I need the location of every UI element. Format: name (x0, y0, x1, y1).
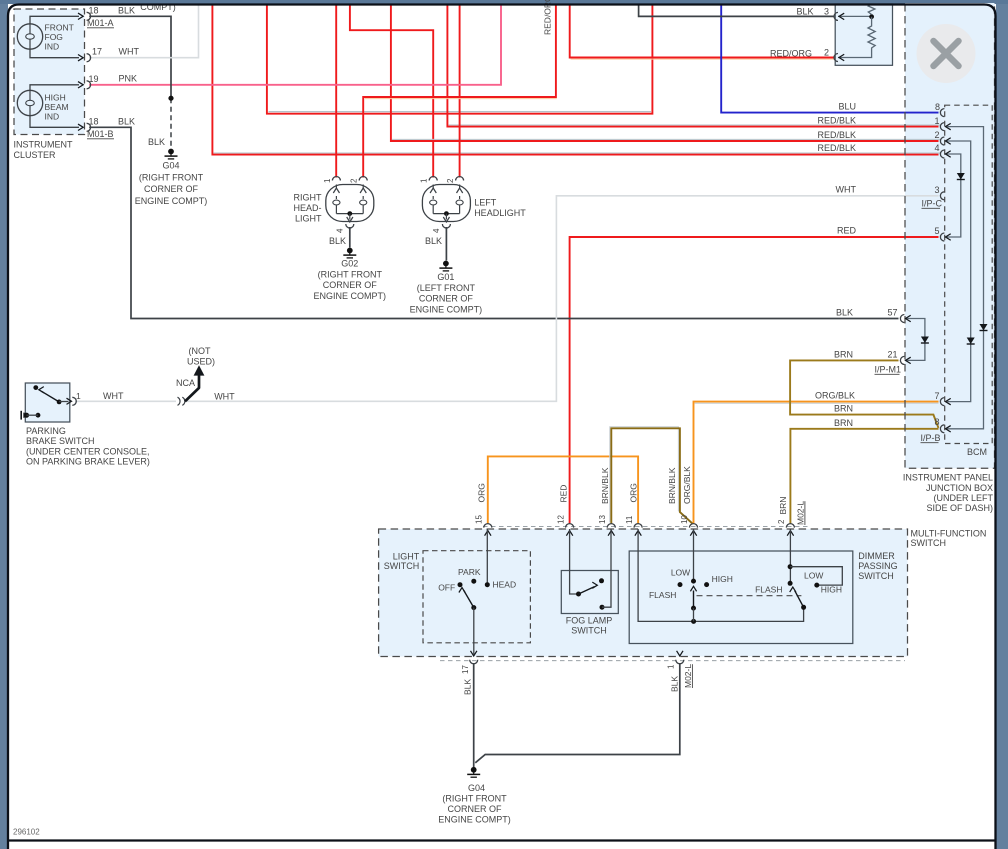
diode D2 (980, 324, 988, 331)
svg-text:HIGH: HIGH (712, 574, 733, 584)
svg-text:CORNER OF: CORNER OF (419, 294, 474, 304)
right headlight pin 2 arc (359, 177, 367, 181)
BCM internal wire pin2 to pin7 (947, 141, 971, 402)
svg-text:BRN/BLK: BRN/BLK (667, 467, 677, 504)
light switch dashed box (423, 551, 530, 643)
wire gray companion pin4 line (214, 152, 941, 154)
svg-text:7: 7 (935, 391, 940, 401)
wire red U-loop wire (267, 4, 653, 114)
connector pin 2 (940, 137, 944, 145)
svg-text:LIGHT: LIGHT (295, 214, 322, 224)
wire RED/BLK to BCM pin 1 (447, 4, 938, 127)
diode D1 (957, 173, 965, 180)
svg-text:CORNER OF: CORNER OF (448, 804, 503, 814)
connector pin 1 (940, 123, 944, 131)
svg-text:ORG: ORG (477, 483, 487, 502)
svg-text:(NOT: (NOT (189, 346, 211, 356)
ground G02 (347, 248, 353, 254)
svg-text:8: 8 (935, 102, 940, 112)
OFF contact (458, 582, 463, 587)
svg-text:HIGH: HIGH (45, 93, 66, 103)
fog lamp switch box (561, 571, 618, 614)
wire orange stripe companion (571, 58, 834, 60)
svg-text:CLUSTER: CLUSTER (14, 150, 57, 160)
svg-text:1: 1 (323, 178, 332, 183)
svg-text:ORG/BLK: ORG/BLK (815, 390, 855, 400)
svg-text:PNK: PNK (118, 74, 137, 84)
svg-text:INSTRUMENT: INSTRUMENT (14, 140, 73, 150)
junction dot on BLK ground wire (168, 96, 173, 101)
connector pin 5 (940, 233, 944, 241)
dimmer passing switch box (629, 551, 853, 644)
multi-function switch pin 15 (484, 524, 492, 528)
cluster pin 17 (78, 54, 83, 60)
svg-text:1: 1 (76, 391, 81, 401)
svg-text:BLK: BLK (148, 137, 165, 147)
bulb HIGH BEAM IND (17, 90, 42, 115)
multi-function switch pin 13 (607, 524, 615, 528)
svg-text:ORG/BLK: ORG/BLK (682, 466, 692, 504)
svg-text:3: 3 (824, 7, 829, 17)
PARK contact (471, 579, 476, 584)
cluster pin 18 M01-A (78, 13, 83, 19)
left headlight pin 2 arc (456, 177, 464, 181)
parking brake pin 1 (72, 397, 76, 405)
svg-text:(RIGHT FRONT: (RIGHT FRONT (318, 270, 383, 280)
svg-text:ENGINE COMPT): ENGINE COMPT) (314, 291, 387, 301)
wire red to left headlight pin 2 (459, 4, 461, 178)
svg-text:17: 17 (92, 47, 102, 57)
svg-text:DIMMER: DIMMER (858, 551, 895, 561)
svg-text:SWITCH: SWITCH (384, 561, 420, 571)
light switch internal wire pin15 to HEAD (486, 529, 488, 585)
svg-text:21: 21 (888, 350, 898, 360)
svg-text:10: 10 (680, 515, 689, 524)
svg-text:M01-B: M01-B (87, 129, 114, 139)
svg-text:WHT: WHT (214, 391, 235, 401)
svg-text:BEAM: BEAM (45, 102, 69, 112)
passing wire pin 2 (789, 529, 791, 583)
wire BLK right headlight ground (349, 227, 351, 248)
svg-text:IND: IND (45, 42, 60, 52)
svg-text:RIGHT: RIGHT (294, 193, 323, 203)
wire RED/BLK to BCM pin 2 (391, 4, 939, 141)
fog switch lower contact (600, 605, 605, 610)
wire RED/ORG to right headlight pin 2 (363, 4, 556, 178)
light switch common wire down to pin 17 (473, 608, 475, 655)
svg-text:LEFT: LEFT (474, 198, 497, 208)
parking brake lever (42, 391, 60, 402)
fog switch wire from pin 12 (570, 529, 579, 594)
wire red to right headlight pin 1 (335, 4, 337, 178)
svg-text:FOG: FOG (45, 32, 63, 42)
close button (917, 24, 976, 83)
svg-text:FLASH: FLASH (649, 590, 676, 600)
svg-text:ENGINE COMPT): ENGINE COMPT) (410, 304, 483, 314)
svg-text:BRN: BRN (778, 497, 788, 515)
wire ORG pin 15 to pin 11 jumper (488, 456, 638, 523)
BCM dashed box (945, 105, 993, 443)
svg-text:RED/BLK: RED/BLK (817, 116, 856, 126)
dimmer LOW contact (678, 582, 683, 587)
svg-text:3: 3 (935, 185, 940, 195)
viewer chrome left band (0, 0, 8, 849)
cluster pin 18 M01-B (78, 124, 83, 130)
svg-text:(RIGHT FRONT: (RIGHT FRONT (139, 172, 204, 182)
connector M02 boundary dashed line (440, 660, 905, 662)
svg-text:I/P-C: I/P-C (922, 199, 943, 209)
parking brake switch box (25, 383, 70, 422)
resistor module box (835, 4, 892, 65)
wire WHT NCA to BCM pin 3 (187, 196, 939, 401)
ground G04 bottom (471, 767, 477, 773)
frame bottom rule (8, 839, 996, 841)
svg-text:HEAD: HEAD (493, 580, 517, 590)
svg-text:1: 1 (420, 178, 429, 183)
svg-text:BLU: BLU (838, 101, 856, 111)
svg-text:ENGINE COMPT): ENGINE COMPT) (438, 814, 511, 824)
wire BLK cluster M01-B to junction box pin 57 (89, 127, 898, 318)
bulb lead wires high beam (30, 85, 79, 91)
wire PNK high beam indicator wire (89, 4, 501, 85)
svg-text:BLK: BLK (425, 236, 442, 246)
connector pin 57 (900, 315, 904, 323)
svg-text:12: 12 (556, 515, 565, 524)
wire RED/ORG to resistor pin 2 (570, 4, 834, 58)
svg-text:WHT: WHT (119, 47, 140, 57)
connector pin 21 I/P-M1 (900, 356, 904, 364)
connector pin 3 I/P-C (940, 192, 944, 200)
svg-text:FLASH: FLASH (755, 585, 782, 595)
dimmer HIGH contact (704, 582, 709, 587)
right headlight filament at 336.4 (335, 185, 337, 189)
left headlight common bus (433, 213, 459, 215)
cluster pin 19 (78, 82, 83, 88)
NCA not-connected connector (178, 397, 181, 405)
svg-text:4: 4 (432, 228, 441, 233)
resistor internal wire pin 3 (838, 15, 872, 17)
bulb lead wires front fog (30, 16, 79, 24)
svg-text:BLK: BLK (669, 676, 679, 692)
wire red to left headlight pin 1 (350, 4, 433, 178)
passing contact B (788, 581, 793, 586)
diode D4 (921, 337, 929, 344)
parking brake switch fill (25, 383, 70, 422)
dimmer wire pin 11 to bus (638, 529, 804, 621)
svg-text:MULTI-FUNCTION: MULTI-FUNCTION (911, 528, 987, 538)
junction box internal wire pin57 to pin21 (906, 319, 925, 361)
dimmer synchro dashed link (697, 595, 802, 597)
wire WHT parking brake to NCA (75, 400, 176, 402)
wire gray companion pin1 line (449, 124, 941, 126)
wire RED multi-function pin 12 to BCM pin 5 (570, 237, 939, 524)
dimmer wire pin 10 (693, 529, 695, 581)
wire WHT cluster pin 17 (89, 4, 198, 58)
passing HIGH contact (814, 583, 819, 588)
svg-text:1: 1 (935, 116, 940, 126)
svg-text:BRN: BRN (834, 349, 853, 359)
multi-function switch dashed box (379, 529, 908, 657)
left headlight body (422, 185, 470, 222)
dimmer bus junction dot (691, 619, 696, 624)
svg-text:FOG LAMP: FOG LAMP (566, 616, 613, 626)
svg-text:PASSING: PASSING (858, 561, 897, 571)
connector pin 4 (940, 150, 944, 158)
svg-text:PARKING: PARKING (26, 426, 66, 436)
svg-text:15: 15 (475, 515, 484, 524)
left headlight filament at 433.2 (432, 185, 434, 189)
svg-text:G01: G01 (437, 272, 454, 282)
left headlight pin 1 arc (429, 177, 437, 181)
wire BLK pin 1 to ground G04 (475, 663, 680, 763)
svg-text:(RIGHT FRONT: (RIGHT FRONT (442, 794, 507, 804)
svg-text:ORG: ORG (628, 483, 638, 502)
svg-text:WHT: WHT (103, 391, 124, 401)
svg-text:RED: RED (837, 226, 857, 236)
left headlight filament at 459.6 (459, 185, 461, 189)
svg-text:M02-L: M02-L (795, 501, 805, 525)
wire ORG/BLK pin 10 to BCM pin 7 (694, 402, 939, 524)
resistor R lower (838, 17, 875, 58)
viewer chrome right band (996, 0, 1008, 849)
svg-text:LOW: LOW (804, 570, 823, 580)
wire BLK left headlight ground (445, 227, 447, 261)
connector pin 8 I/P-B (940, 425, 944, 433)
wire gray stripe companion (610, 427, 691, 523)
svg-text:PARK: PARK (458, 567, 481, 577)
svg-text:(UNDER CENTER CONSOLE,: (UNDER CENTER CONSOLE, (26, 447, 150, 457)
wire RED/BLK to BCM pin 4 (212, 4, 938, 155)
wire white overlay segment (269, 111, 652, 113)
dimmer lever left (693, 591, 695, 609)
instrument cluster dashed box (14, 9, 85, 135)
wire BRN/BLK pin 13 to pin 10 (611, 428, 692, 523)
svg-text:BLK: BLK (463, 679, 473, 695)
svg-text:JUNCTION BOX: JUNCTION BOX (926, 483, 993, 493)
wire BLK dashed to ground G04 (170, 98, 172, 147)
svg-text:2: 2 (446, 178, 455, 183)
connector M02 top boundary dashed line (483, 526, 810, 528)
parking brake case ground (24, 413, 29, 418)
svg-text:HEADLIGHT: HEADLIGHT (474, 208, 526, 218)
svg-text:OFF: OFF (438, 582, 455, 592)
wire BLK cluster M01-A ground wire (89, 16, 171, 98)
ground G01 (443, 261, 449, 267)
svg-text:HEAD-: HEAD- (293, 203, 321, 213)
instrument cluster fill (14, 9, 85, 135)
connector pin 7 (940, 398, 944, 406)
resistor module fill (835, 4, 892, 65)
diode D3 (967, 338, 975, 345)
ground G04 top (168, 149, 174, 155)
multi-function switch bottom pin 1 (677, 651, 683, 656)
passing loop to HIGH contact (790, 567, 842, 585)
svg-text:19: 19 (89, 74, 99, 84)
svg-text:BRN/BLK: BRN/BLK (600, 467, 610, 504)
HEAD contact (485, 582, 490, 587)
svg-text:M01-A: M01-A (87, 18, 114, 28)
viewer chrome top band (0, 0, 1008, 4)
svg-text:BLK: BLK (118, 6, 135, 16)
junction dot resistor (869, 14, 874, 19)
connector pin 8 BLU (940, 109, 944, 117)
svg-text:(LEFT FRONT: (LEFT FRONT (417, 283, 476, 293)
svg-text:11: 11 (625, 515, 634, 524)
resistor upper (cut) (868, 4, 875, 15)
multi-function switch fill (379, 529, 908, 657)
svg-text:WHT: WHT (836, 185, 857, 195)
svg-text:RED: RED (559, 485, 569, 503)
svg-text:HIGH: HIGH (821, 585, 842, 595)
bulb FRONT FOG IND (17, 24, 42, 49)
fog switch wire to pin 13 (602, 529, 611, 607)
svg-text:4: 4 (935, 143, 940, 153)
svg-text:4: 4 (335, 228, 344, 233)
resistor pin 3 (834, 12, 838, 20)
svg-text:13: 13 (598, 515, 607, 524)
svg-text:2: 2 (777, 519, 786, 524)
light switch lever (464, 590, 474, 607)
svg-text:M02-L: M02-L (683, 664, 693, 688)
svg-text:RED/BLK: RED/BLK (817, 130, 856, 140)
dimmer lever left pivot (691, 606, 696, 611)
svg-text:BLK: BLK (329, 236, 346, 246)
svg-text:IND: IND (45, 112, 60, 122)
svg-text:CORNER OF: CORNER OF (323, 280, 378, 290)
right headlight filament at 363.2 (362, 185, 364, 189)
svg-text:RED/BLK: RED/BLK (817, 143, 856, 153)
NCA arrow stub (185, 375, 199, 402)
svg-text:I/P-M1: I/P-M1 (875, 365, 902, 375)
multi-function switch pin 10 (690, 524, 698, 528)
svg-text:G04: G04 (468, 783, 485, 793)
multi-function switch bottom pin 17 (470, 651, 476, 656)
svg-text:BRN: BRN (834, 404, 853, 414)
wire BRN pin 2 to BCM pin 8 lower (790, 429, 938, 524)
svg-text:2: 2 (350, 178, 359, 183)
svg-text:BRAKE SWITCH: BRAKE SWITCH (26, 436, 95, 446)
parking brake contact upper (33, 385, 38, 390)
svg-text:ENGINE COMPT): ENGINE COMPT) (135, 196, 208, 206)
parking brake common (57, 400, 62, 405)
svg-text:I/P-B: I/P-B (921, 433, 941, 443)
svg-text:ON PARKING BRAKE LEVER): ON PARKING BRAKE LEVER) (26, 456, 150, 466)
svg-text:8: 8 (935, 417, 940, 427)
svg-text:CORNER OF: CORNER OF (144, 184, 199, 194)
svg-text:LOW: LOW (671, 567, 690, 577)
wire gray stripe companion orgblk (695, 402, 939, 404)
wire BLK pin 17 to ground G04 (473, 663, 475, 767)
wire BLU to BCM pin 8 (721, 4, 938, 113)
svg-text:SWITCH: SWITCH (571, 625, 607, 635)
svg-text:296102: 296102 (13, 828, 40, 837)
wire orange stripe companion (365, 98, 557, 100)
wire BRN pin 21 to BCM pin 8 upper (790, 360, 938, 428)
passing junction dot A (788, 564, 793, 569)
svg-text:18: 18 (89, 6, 99, 16)
svg-text:INSTRUMENT PANEL: INSTRUMENT PANEL (903, 473, 993, 483)
multi-function switch pin 11 (634, 524, 642, 528)
svg-text:BRN: BRN (834, 418, 853, 428)
svg-text:BCM: BCM (967, 447, 987, 457)
resistor pin 2 (834, 54, 838, 62)
svg-text:2: 2 (935, 130, 940, 140)
svg-text:LIGHT: LIGHT (393, 552, 420, 562)
BCM internal wire pin4 to pin5 (947, 154, 961, 237)
svg-text:5: 5 (935, 226, 940, 236)
right headlight pin 4 (346, 224, 354, 228)
svg-text:18: 18 (89, 117, 99, 127)
svg-text:SIDE OF DASH): SIDE OF DASH) (926, 503, 993, 513)
svg-text:2: 2 (824, 48, 829, 58)
svg-text:G04: G04 (162, 161, 179, 171)
instrument panel junction box dashed border (905, 4, 995, 468)
passing lever (795, 591, 804, 608)
wire gray companion pin2 line (392, 138, 940, 140)
right headlight body (326, 185, 374, 222)
wire BLK to resistor pin 3 (639, 4, 834, 16)
right headlight common bus (336, 213, 363, 215)
light switch common (471, 605, 476, 610)
left headlight pin 4 (442, 224, 450, 228)
fog switch common contact (576, 592, 581, 597)
fog switch upper contact (599, 578, 604, 583)
svg-text:(UNDER LEFT: (UNDER LEFT (933, 493, 993, 503)
svg-text:BLK: BLK (118, 117, 135, 127)
svg-text:USED): USED) (187, 356, 215, 366)
svg-text:17: 17 (461, 665, 470, 674)
svg-text:BLK: BLK (836, 307, 853, 317)
svg-text:BLK: BLK (796, 6, 813, 16)
passing lever pivot (801, 605, 806, 610)
fog switch lever (579, 587, 595, 594)
svg-text:FRONT: FRONT (45, 23, 74, 33)
svg-text:NCA: NCA (176, 378, 195, 388)
instrument panel junction box fill (905, 3, 995, 468)
svg-text:SWITCH: SWITCH (858, 571, 894, 581)
right headlight pin 1 arc (332, 177, 340, 181)
dimmer upper contact (pin10) (691, 579, 696, 584)
BCM internal wire pin1 to pin8 (947, 127, 984, 429)
svg-text:57: 57 (888, 308, 898, 318)
multi-function switch pin 12 (566, 524, 574, 528)
svg-text:G02: G02 (341, 259, 358, 269)
svg-text:RED/ORG: RED/ORG (770, 48, 812, 58)
svg-text:1: 1 (667, 664, 676, 669)
svg-text:SWITCH: SWITCH (911, 538, 947, 548)
multi-function switch pin 2 (786, 524, 794, 528)
